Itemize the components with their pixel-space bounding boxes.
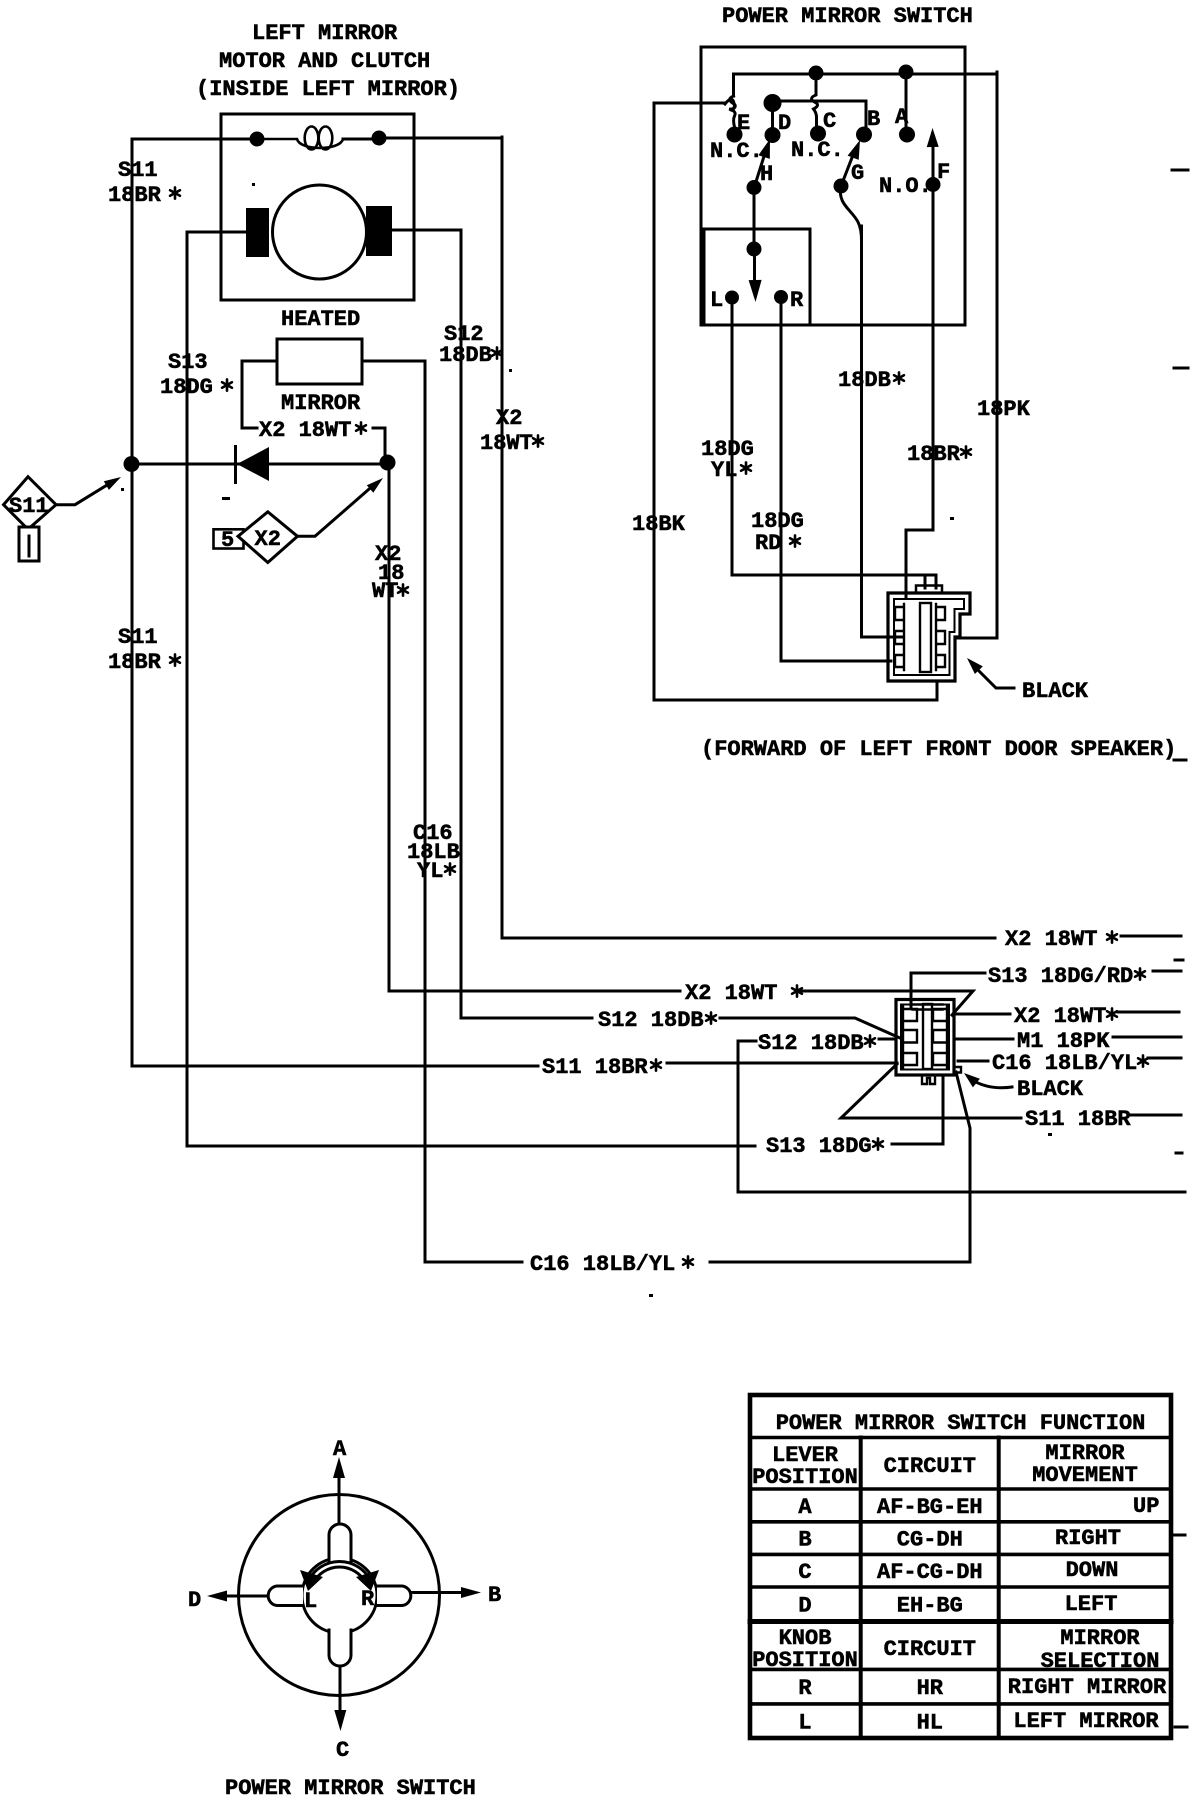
svg-text:X2: X2 [255,527,281,552]
wire: coil right to X2 18WT vertical [343,138,502,139]
svg-text:HL: HL [917,1711,943,1736]
label A [895,105,909,130]
connector C2 left comb [903,1006,917,1068]
label S11 18BR* upper [108,158,180,208]
label S11 18BR right [1025,1107,1131,1132]
svg-text:C: C [823,109,836,134]
label D knob [188,1588,201,1613]
label S11 18BR* horizontal [542,1055,661,1080]
label D [778,111,791,136]
label 18DB* [838,368,904,393]
svg-text:18DB: 18DB [439,343,492,368]
svg-text:18PK: 18PK [977,397,1031,422]
svg-text:R: R [361,1587,375,1612]
wire: right brush to S12 vertical [392,229,461,232]
svg-text:N.C.: N.C. [710,139,763,164]
label MIRROR [281,391,361,416]
node: coil right terminal [372,131,387,146]
switch sub-box L/R [704,229,810,325]
svg-text:EH-BG: EH-BG [897,1594,963,1619]
node: coil left terminal [250,132,265,147]
svg-text:A: A [895,105,909,130]
node: contact A [899,127,915,143]
connector C1 center bar [920,603,931,672]
node: contact B [856,127,872,143]
clutch coil L1 [257,127,343,150]
arrow A up [333,1457,345,1524]
knob lobe bottom [329,1630,351,1666]
svg-text:18BR: 18BR [108,183,162,208]
node: pivot H [747,180,762,195]
node: contact F [926,177,941,192]
label HEATED [281,307,360,332]
table header mirror movement [1032,1441,1138,1488]
scan specks [121,183,1052,1297]
label L [710,288,723,313]
svg-text:R: R [798,1676,812,1701]
label S13 18DG* [160,350,232,400]
wire: left brush to S13 vertical [187,231,246,234]
diode CR1 [236,445,270,484]
svg-text:MIRROR: MIRROR [1060,1626,1140,1651]
wire S12 18DB second run [738,1039,1185,1192]
contact arm G with arrow [841,140,860,186]
svg-text:RIGHT MIRROR: RIGHT MIRROR [1008,1675,1167,1700]
label X2 18WT* horizontal left [685,981,802,1006]
arrow C down [334,1667,346,1732]
svg-text:MOTOR AND CLUTCH: MOTOR AND CLUTCH [219,49,430,74]
label C16 18LB/YL* horizontal [530,1252,693,1277]
svg-text:X2: X2 [496,406,522,431]
label 18PK [977,397,1031,422]
svg-text:RD: RD [755,531,781,556]
svg-text:X2 18WT: X2 18WT [1014,1004,1106,1029]
svg-text:H: H [760,162,773,187]
label BLACK C2 [1017,1077,1084,1102]
connector X2 diamond [238,512,298,563]
table row R [798,1675,1167,1701]
table row A [798,1494,1159,1520]
svg-text:X2 18WT: X2 18WT [685,981,777,1006]
node: D bus dot [764,94,782,112]
arrow from X2 connector to junction [298,478,384,536]
svg-text:E: E [737,111,750,136]
svg-text:18BK: 18BK [632,512,686,537]
label C16 18LB YL* [407,821,460,884]
svg-text:CIRCUIT: CIRCUIT [884,1637,976,1662]
svg-text:DOWN: DOWN [1066,1558,1119,1583]
wire X2 18WT from coil right down to right edge [502,137,1181,938]
svg-text:LEFT: LEFT [1065,1592,1118,1617]
heated mirror element [277,339,362,384]
svg-text:POWER MIRROR SWITCH: POWER MIRROR SWITCH [722,4,973,29]
svg-text:C: C [336,1738,349,1763]
table power mirror switch function frame [750,1395,1171,1738]
label N.C. right [791,138,844,163]
svg-text:18BR: 18BR [907,442,961,467]
svg-text:5: 5 [221,528,234,553]
connector C2 right comb [933,1006,947,1068]
label S11 inside diamond [9,494,49,519]
node: S11 junction [124,456,140,472]
wire: diode feed S11 node to X2 node [132,463,387,466]
table header circuit [884,1454,976,1479]
knob rotation arc arrows [300,1562,379,1591]
label F [937,160,950,185]
wire: H down to selector [753,188,756,249]
wire: C from bus with crimp [812,73,818,126]
wire S13 18DG/RD from C2 top to right edge [911,971,1181,1008]
node: contact C [810,126,826,142]
svg-text:(FORWARD OF LEFT FRONT DOOR SP: (FORWARD OF LEFT FRONT DOOR SPEAKER) [701,737,1176,762]
svg-text:N.C.: N.C. [791,138,844,163]
svg-text:MIRROR: MIRROR [281,391,361,416]
table title [776,1411,1146,1436]
label H [760,162,773,187]
wire 18DG YL from L to C1 tab [732,304,936,588]
title power mirror switch bottom [225,1776,476,1800]
connector C1 left comb [895,604,904,670]
wire: D dot down to D contact [771,103,774,127]
svg-text:YL: YL [711,458,737,483]
svg-text:CIRCUIT: CIRCUIT [884,1454,976,1479]
svg-text:S11: S11 [118,158,158,183]
knob lobe right [377,1586,411,1606]
wire S13 18DG vertical and run [187,232,943,1146]
crimp on bus to E [730,96,736,110]
arrow to BLACK label C2 [964,1073,1012,1088]
wire X2 18WT from diode node down and to connector C2 [389,463,973,1015]
node: pivot G [834,179,849,194]
label R [790,288,804,313]
svg-text:B: B [867,107,880,132]
table row D [798,1592,1117,1619]
svg-text:18WT: 18WT [480,431,533,456]
left mirror motor box [221,114,414,300]
connector C2 bottom tab [922,1075,935,1084]
label 5 [221,528,234,553]
wire: G curve down to 18DB vertical [840,186,861,240]
svg-text:MOVEMENT: MOVEMENT [1032,1463,1138,1488]
svg-text:LEFT MIRROR: LEFT MIRROR [1013,1709,1159,1734]
svg-text:(INSIDE LEFT MIRROR): (INSIDE LEFT MIRROR) [196,77,460,102]
connector C2 outer shell [896,1000,954,1076]
svg-text:A: A [798,1495,812,1520]
svg-text:WT: WT [372,579,398,604]
wire S11 18BR vertical and run to connector C2 [132,139,897,1066]
wire 18DG RD from R to C1 left pin 3 [781,304,891,661]
svg-text:D: D [188,1588,201,1613]
label S13 18DG/RD* [988,964,1145,989]
svg-text:SELECTION: SELECTION [1041,1649,1160,1674]
motor left brush [246,208,269,257]
page edge tick marks [1172,170,1188,1727]
wire: D to B [773,101,867,127]
svg-text:S11 18BR: S11 18BR [542,1055,648,1080]
svg-text:BLACK: BLACK [1017,1077,1084,1102]
svg-text:N.O.: N.O. [879,174,932,199]
node: contact R [774,290,788,304]
wire: switch top bus to 18PK corner [734,74,998,96]
svg-text:S13 18DG/RD: S13 18DG/RD [988,964,1133,989]
wire 18BK from E crimp to C1 bottom [654,103,937,700]
label E [737,111,750,136]
wire M1 18PK right of C2 [954,1037,1181,1039]
wire: 18BK into E with crimp [654,99,735,127]
svg-text:CG-DH: CG-DH [897,1528,963,1553]
wire C16 18LB/YL from heated mirror down [425,361,970,1262]
arrow B right [413,1587,482,1598]
motor right brush [366,206,392,256]
svg-text:S11 18BR: S11 18BR [1025,1107,1131,1132]
wire: heated mirror right to C16 vertical [362,360,425,363]
svg-text:HR: HR [917,1676,944,1701]
svg-text:C16 18LB/YL: C16 18LB/YL [992,1051,1137,1076]
label B knob [488,1583,501,1608]
svg-text:C: C [798,1560,811,1585]
svg-text:POWER MIRROR SWITCH: POWER MIRROR SWITCH [225,1776,476,1800]
svg-text:G: G [851,161,864,186]
label X2 18WT* right mid [1014,1004,1117,1029]
label C [823,109,836,134]
svg-text:18DG: 18DG [160,375,213,400]
contact arm F arrow N.O. [927,128,939,184]
svg-text:S11: S11 [9,494,49,519]
node: bus junction A [899,65,914,80]
arrow D left [207,1591,266,1602]
table row C [798,1558,1118,1585]
selector arrow down [749,249,762,302]
label C knob [336,1738,349,1763]
knob lobe top [329,1524,351,1561]
svg-text:R: R [790,288,804,313]
label X2 18WT* [259,418,366,443]
svg-text:A: A [333,1437,347,1462]
svg-text:S12 18DB: S12 18DB [598,1008,704,1033]
wire: heated mirror left to diode node X2 18WT [242,361,385,463]
label X2 18 WT* [372,542,408,604]
wire: A from bus [905,72,908,127]
svg-text:18BR: 18BR [108,650,162,675]
motor M armature circle [273,185,367,279]
connector S11 diamond symbol [4,477,57,561]
node: selector pivot [747,242,762,257]
label R knob [361,1587,375,1612]
svg-text:AF-CG-DH: AF-CG-DH [877,1560,983,1585]
label N.O. [879,174,932,199]
svg-text:POSITION: POSITION [752,1465,858,1490]
svg-text:UP: UP [1133,1494,1159,1519]
svg-text:BLACK: BLACK [1022,679,1089,704]
svg-text:YL: YL [417,859,443,884]
caption forward of left front door speaker [701,737,1176,762]
svg-text:L: L [710,288,723,313]
svg-text:POWER MIRROR SWITCH FUNCTION: POWER MIRROR SWITCH FUNCTION [776,1411,1146,1436]
svg-text:D: D [798,1594,811,1619]
table row L [798,1709,1159,1736]
knob inner circle [302,1558,377,1633]
table row B [798,1526,1121,1553]
svg-text:AF-BG-EH: AF-BG-EH [877,1495,983,1520]
label X2 inside diamond [255,527,281,552]
svg-text:RIGHT: RIGHT [1055,1526,1121,1551]
svg-text:18DB: 18DB [838,368,891,393]
power mirror switch outer box [701,47,965,325]
svg-text:S13: S13 [168,350,208,375]
svg-text:S12 18DB: S12 18DB [758,1031,864,1056]
wire 18DB from G to C1 left pin 2 [862,226,904,637]
node: bus junction C [809,66,824,81]
arrow from S11 connector to junction [56,477,121,505]
wire: motor top left to S11 vertical [132,138,257,141]
svg-text:L: L [304,1589,317,1614]
wire 18PK from bus to C1 right [956,72,997,638]
connector C2 center bar with cross arm [913,1004,943,1069]
label A knob [333,1437,347,1462]
label S11 18BR* lower [108,625,180,675]
node: contact D [765,127,781,143]
svg-text:LEFT MIRROR: LEFT MIRROR [252,21,398,46]
svg-text:L: L [798,1711,811,1736]
svg-text:F: F [937,160,950,185]
knob outer circle [239,1495,440,1696]
label 18BK [632,512,686,537]
table row knob position [752,1626,1159,1674]
label S12 18DB* second [758,1031,875,1056]
label C16 18LB/YL* right [992,1051,1148,1076]
connector C1 outer shell [888,593,970,681]
knob lobe left [268,1586,303,1606]
table horizontal lines [750,1438,1171,1704]
label M1 18PK [1017,1029,1110,1054]
wire 18BR from F to C1 top [906,192,933,598]
node: contact E [727,127,743,143]
contact arm H with arrow [754,139,770,188]
label 18DG RD* [751,509,804,556]
node: contact L [725,291,739,305]
label S13 18DG* horizontal [766,1134,883,1159]
label X2 18WT* right top [1005,927,1117,952]
connector C1 top tab [916,586,942,594]
svg-text:POSITION: POSITION [752,1648,858,1673]
label S12 18DB* horizontal first [598,1008,716,1033]
connector C2 bottom right foot [954,1067,961,1073]
label L knob [304,1589,317,1614]
svg-text:S13 18DG: S13 18DG [766,1134,872,1159]
label N.C. left [710,139,763,164]
title: left mirror motor and clutch [196,21,460,102]
node: X2 junction [380,455,396,471]
wire C16 18LB/YL right of C2 [958,1058,1181,1061]
wire S12 18DB from right brush down to connector C2 [461,230,900,1038]
title: power mirror switch (top) [722,4,973,29]
svg-text:S11: S11 [118,625,158,650]
table header lever position [752,1443,858,1490]
svg-text:B: B [798,1528,811,1553]
arrow to BLACK label C1 [967,658,1014,688]
svg-text:C16 18LB/YL: C16 18LB/YL [530,1252,675,1277]
svg-text:D: D [778,111,791,136]
wire S11 18BR from C2 pin to right edge [841,1064,1181,1118]
svg-text:HEATED: HEATED [281,307,360,332]
label X2 18WT* vertical [480,406,543,456]
label 18BR* [907,442,971,467]
svg-text:X2 18WT: X2 18WT [259,418,351,443]
connector X2 cavity 5 symbol [214,529,244,548]
svg-text:X2 18WT: X2 18WT [1005,927,1097,952]
wire X2 18WT right of C2 [954,1012,1179,1014]
svg-text:B: B [488,1583,501,1608]
table vertical lines [861,1438,999,1739]
label 18DG YL* [701,437,754,483]
label B [867,107,880,132]
label G [851,161,864,186]
label S12 18DB* vertical [439,322,502,368]
label BLACK C1 [1022,679,1089,704]
connector C1 right comb [936,604,945,670]
stub into C1 tab [924,575,927,588]
